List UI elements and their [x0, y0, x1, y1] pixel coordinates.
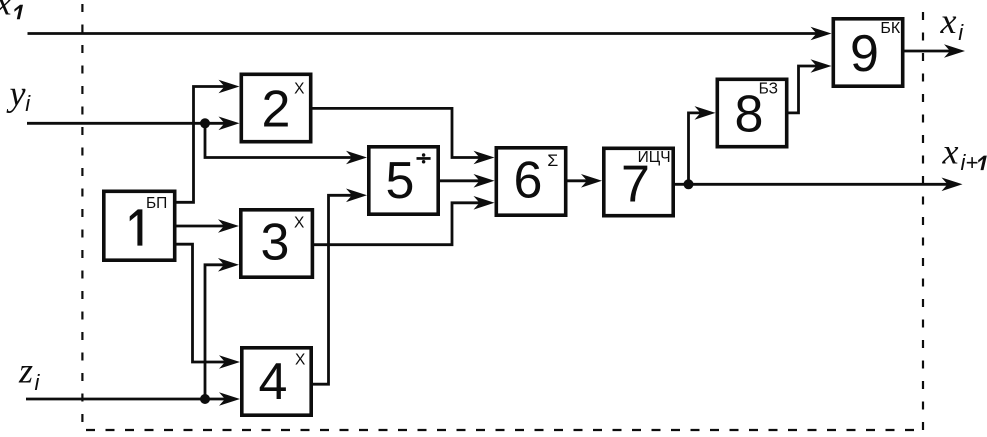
svg-text:i+: i+ [961, 150, 979, 175]
svg-text:i: i [35, 370, 41, 395]
svg-text:Х: Х [294, 81, 305, 98]
svg-text:i: i [958, 20, 964, 45]
svg-text:2: 2 [262, 81, 291, 139]
svg-text:z: z [18, 351, 33, 391]
svg-text:Х: Х [294, 214, 305, 231]
svg-text:6: 6 [514, 152, 543, 210]
svg-text:x: x [940, 1, 957, 41]
svg-text:y: y [7, 74, 26, 114]
svg-text:x: x [942, 132, 959, 172]
svg-text:i: i [25, 91, 31, 116]
svg-text:5: 5 [386, 152, 415, 210]
svg-text:9: 9 [850, 25, 879, 83]
svg-text:3: 3 [261, 214, 290, 272]
svg-text:Σ: Σ [547, 151, 558, 170]
svg-text:x: x [0, 0, 12, 22]
svg-text:БЗ: БЗ [759, 81, 778, 98]
svg-text:БП: БП [146, 195, 167, 212]
svg-text:БК: БК [880, 20, 901, 37]
svg-text:Х: Х [295, 352, 306, 369]
svg-text:ИЦЧ: ИЦЧ [638, 149, 671, 166]
svg-text:4: 4 [259, 353, 288, 411]
